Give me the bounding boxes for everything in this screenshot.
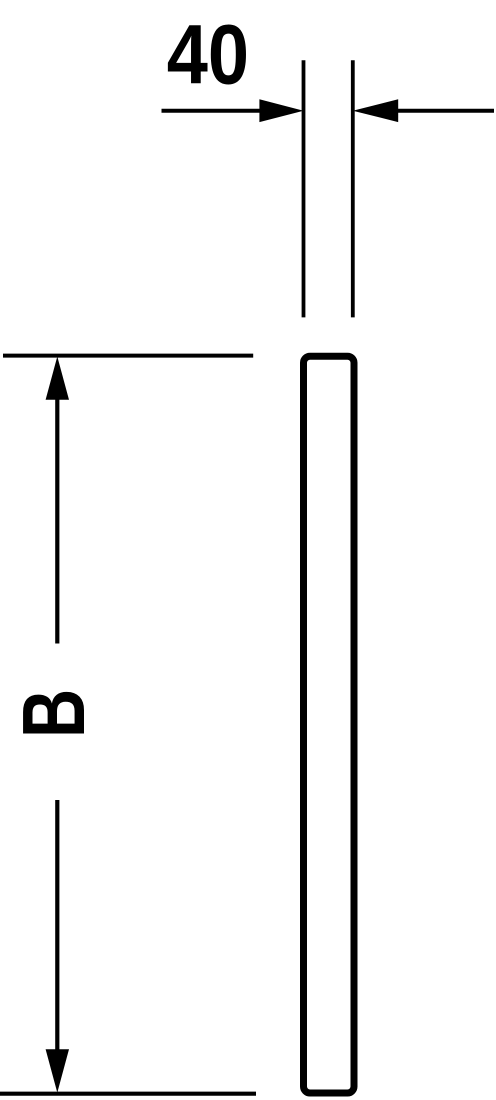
svg-text:B: B bbox=[4, 689, 103, 738]
svg-text:40: 40 bbox=[167, 7, 249, 102]
